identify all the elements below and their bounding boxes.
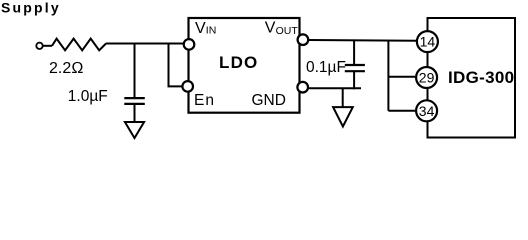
wire branch to pin 34 [388,110,415,112]
svg-text:V: V [265,20,276,37]
wire branch to pin 29 [388,76,415,78]
wire GND pin to right [308,87,361,89]
svg-text:LDO: LDO [219,53,258,72]
wire GND down to ground [342,88,344,107]
pin VOUT circle [298,34,309,45]
wire capacitor C1 to ground [134,104,136,122]
capacitor C1 1.0uF plates [124,97,145,99]
svg-text:34: 34 [419,103,435,119]
wire branch vertical to pins 29 and 34 [387,40,389,110]
svg-text:V: V [195,20,206,37]
wire junction down to capacitor C2 [353,40,355,65]
svg-text:2.2Ω: 2.2Ω [49,60,84,77]
pin VIN circle [184,39,195,50]
svg-text:GND: GND [252,92,286,109]
wire capacitor C2 to GND wire [353,71,355,89]
wire from terminal to resistor [43,45,52,47]
svg-text:1.0µF: 1.0µF [68,88,108,105]
svg-text:IDG-300: IDG-300 [448,68,514,87]
pin 34 circle [416,100,437,121]
svg-text:14: 14 [420,34,436,50]
wire VOUT to IDG-300 pin 14 [309,39,417,42]
wire VIN branch down to En [169,44,183,87]
wire junction down to capacitor C1 [134,44,136,99]
IC U2 IDG-300 box [428,18,516,138]
resistor R1 2.2 ohm zigzag [52,39,106,51]
pin GND circle [297,82,308,93]
svg-text:OUT: OUT [276,25,299,37]
input terminal (open circle) [36,43,42,49]
pin En circle [182,81,193,92]
svg-text:IN: IN [206,25,217,37]
svg-text:29: 29 [419,70,435,86]
wire resistor to VIN pin [106,43,184,45]
svg-text:0.1µF: 0.1µF [306,59,346,76]
pin 29 circle [416,67,437,88]
pin 14 circle [417,31,438,52]
svg-text:Supply: Supply [1,0,61,15]
ground symbol (left) [125,122,144,138]
svg-text:En: En [194,92,215,109]
ground symbol (right) [333,107,353,126]
capacitor C2 0.1uF plates [345,64,365,66]
op-amp U1 LDO box [189,18,300,113]
